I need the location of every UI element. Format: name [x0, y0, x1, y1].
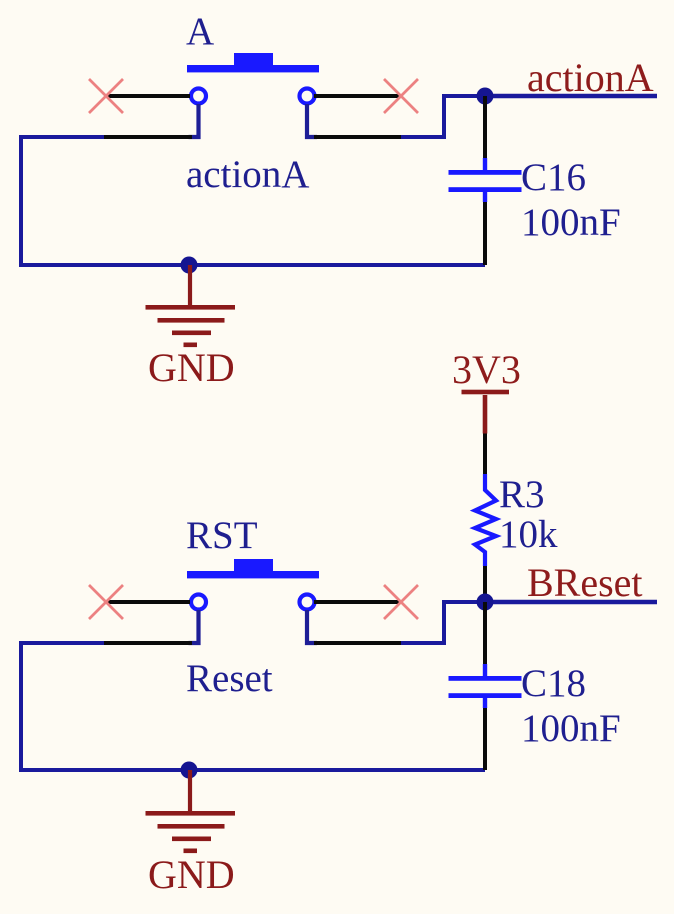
svg-text:3V3: 3V3: [452, 347, 521, 392]
svg-text:C16: C16: [521, 156, 586, 199]
pushbutton A left leg: [189, 104, 199, 137]
pushbutton RST pin 2 lead: [104, 641, 192, 645]
ground symbol top bars: [146, 305, 236, 347]
capacitor C18 top pin: [483, 602, 487, 665]
svg-text:actionA: actionA: [527, 55, 654, 100]
capacitor C16 top pin: [483, 96, 487, 159]
ground symbol bottom bars: [146, 811, 236, 853]
junction node gnd top: [181, 257, 198, 274]
pushbutton A right leg: [307, 104, 317, 137]
capacitor C18 bottom pin: [483, 708, 487, 770]
svg-text:Reset: Reset: [186, 657, 273, 700]
pushbutton A pin 3 lead: [314, 94, 402, 98]
pushbutton A pin 1 circle: [191, 89, 206, 104]
svg-text:GND: GND: [148, 852, 235, 897]
pushbutton A pin 4 lead: [314, 135, 401, 139]
pushbutton A pin 2 lead: [104, 135, 192, 139]
svg-text:GND: GND: [148, 345, 235, 390]
svg-text:C18: C18: [521, 662, 586, 705]
svg-text:10k: 10k: [499, 513, 558, 556]
pushbutton A pin 3 circle: [300, 89, 315, 104]
wire RST pin4 to node BReset: [401, 602, 485, 643]
ground symbol bottom stem: [188, 770, 192, 813]
ground symbol top stem: [188, 265, 192, 307]
svg-text:RST: RST: [186, 514, 258, 557]
pushbutton RST right leg: [307, 610, 317, 643]
pushbutton RST pin 3 lead: [314, 600, 402, 604]
svg-text:100nF: 100nF: [521, 201, 621, 244]
wire RST pin2 to ground loop: [21, 643, 485, 770]
svg-text:BReset: BReset: [527, 560, 643, 605]
pushbutton RST pin 3 circle: [300, 595, 315, 610]
junction node gnd bottom: [181, 762, 198, 779]
pushbutton RST body: [187, 559, 319, 578]
wire pin2 to ground loop: [21, 137, 485, 265]
pushbutton RST left leg: [189, 610, 199, 643]
wire pin4 to node actionA: [401, 96, 485, 137]
no-connect X on pin 1: [89, 79, 123, 113]
svg-text:A: A: [186, 10, 214, 53]
resistor R3 bottom pin: [483, 566, 487, 602]
wire node to net actionA: [485, 94, 657, 99]
no-connect X on pin 3: [384, 79, 418, 113]
capacitor C16 bottom pin: [483, 202, 487, 265]
capacitor C18 body: [449, 664, 522, 708]
resistor R3 top pin: [483, 434, 487, 475]
no-connect X on RST pin 1: [89, 585, 123, 619]
junction node BReset: [477, 594, 494, 611]
pushbutton A pin 1 lead: [105, 94, 190, 98]
pushbutton RST pin 1 lead: [105, 600, 190, 604]
pushbutton RST pin 1 circle: [191, 595, 206, 610]
resistor R3 body zigzag: [475, 474, 496, 566]
pushbutton A body: [187, 53, 319, 72]
capacitor C16 body: [449, 158, 522, 202]
pushbutton RST pin 4 lead: [314, 641, 401, 645]
power port 3V3 bar: [462, 390, 510, 434]
no-connect X on RST pin 3: [384, 585, 418, 619]
svg-text:R3: R3: [499, 473, 545, 516]
junction node actionA: [477, 88, 494, 105]
svg-text:actionA: actionA: [186, 153, 309, 196]
svg-text:100nF: 100nF: [521, 707, 621, 750]
wire node to net BReset: [485, 600, 657, 605]
